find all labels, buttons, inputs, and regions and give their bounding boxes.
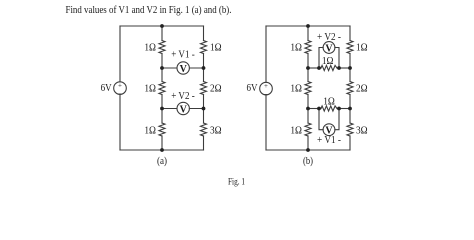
stub left voltmeter V2 (b) <box>319 48 323 69</box>
voltmeter V1 (a) <box>177 62 189 75</box>
wire top connector (b) with resistor <box>308 67 321 69</box>
resistor 1ohm (a) mid middle <box>159 82 165 95</box>
wire right branch segs (b) <box>349 26 351 41</box>
voltmeter V2 (b) <box>323 42 335 55</box>
resistor 2ohm (b) right middle <box>347 82 353 95</box>
wire left upper (b) <box>265 26 267 82</box>
resistor 1ohm (b) mid middle <box>305 82 311 95</box>
resistor 1ohm (b) horizontal bottom <box>321 106 337 111</box>
svg-text:(b): (b) <box>303 155 313 167</box>
resistor 1ohm (a) right top <box>201 41 207 54</box>
svg-text:+ V2 -: + V2 - <box>317 31 341 43</box>
svg-text:1Ω: 1Ω <box>210 41 222 53</box>
svg-text:+ V1 -: + V1 - <box>317 134 341 146</box>
svg-text:+ V2 -: + V2 - <box>171 90 195 102</box>
svg-text:−: − <box>118 90 122 98</box>
svg-text:+: + <box>118 82 122 90</box>
resistor 1ohm (a) mid bottom <box>159 123 165 136</box>
junction dots (a) <box>160 24 205 152</box>
stub right voltmeter V1 (b) <box>335 109 339 130</box>
svg-text:2Ω: 2Ω <box>356 82 368 94</box>
wire left lower (a) <box>119 94 121 150</box>
wire left lower (b) <box>265 95 267 150</box>
svg-text:1Ω: 1Ω <box>144 82 156 94</box>
voltmeter V2 (a) <box>177 102 189 115</box>
svg-text:3Ω: 3Ω <box>210 124 222 136</box>
resistor 1ohm (b) mid bottom <box>305 123 311 136</box>
wire V2 row (a) <box>162 108 204 110</box>
resistor 1ohm (b) horizontal top <box>321 65 337 70</box>
resistor 2ohm (a) right middle <box>201 82 207 95</box>
resistor 1ohm (a) mid top <box>159 41 165 54</box>
svg-text:V: V <box>325 43 333 54</box>
resistor 3ohm (b) right bottom <box>347 123 353 136</box>
wire top (b) <box>266 25 350 27</box>
voltmeter V1 (b) <box>323 124 335 137</box>
wire V1 row (a) <box>162 67 204 69</box>
svg-text:6V: 6V <box>247 82 258 94</box>
resistor 1ohm (b) right top <box>347 41 353 54</box>
svg-text:Fig. 1: Fig. 1 <box>228 178 245 188</box>
svg-text:2Ω: 2Ω <box>210 82 222 94</box>
voltage source 6V (a) <box>114 82 127 98</box>
svg-text:+ V1 -: + V1 - <box>171 49 195 61</box>
wire middle branch segs (b) <box>307 26 309 41</box>
resistor 1ohm (b) mid top <box>305 41 311 54</box>
wire bottom connector (b) with resistor <box>308 108 321 110</box>
svg-text:1Ω: 1Ω <box>290 41 302 53</box>
svg-text:3Ω: 3Ω <box>356 124 368 136</box>
svg-text:1Ω: 1Ω <box>144 124 156 136</box>
voltage source 6V (b) <box>260 82 273 98</box>
wire left upper (a) <box>119 26 121 82</box>
stub right voltmeter V2 (b) <box>335 48 339 69</box>
svg-text:1Ω: 1Ω <box>290 82 302 94</box>
svg-text:6V: 6V <box>101 82 112 94</box>
wire top (a) <box>120 25 204 27</box>
wire middle branch segs (a) <box>161 26 163 41</box>
svg-text:Find values of V1 and V2 in Fi: Find values of V1 and V2 in Fig. 1 (a) a… <box>66 4 232 16</box>
svg-text:1Ω: 1Ω <box>144 41 156 53</box>
svg-text:1Ω: 1Ω <box>322 55 334 67</box>
svg-text:1Ω: 1Ω <box>290 124 302 136</box>
svg-text:(a): (a) <box>157 155 167 167</box>
svg-text:+: + <box>264 82 268 90</box>
wire bottom (b) <box>266 149 350 151</box>
svg-text:−: − <box>264 90 268 98</box>
junction dots (b) <box>306 24 352 152</box>
stub left voltmeter V1 (b) <box>319 109 323 130</box>
svg-text:V: V <box>180 64 188 75</box>
svg-text:1Ω: 1Ω <box>356 41 368 53</box>
wire bottom (a) <box>120 149 204 151</box>
svg-text:1Ω: 1Ω <box>323 95 335 107</box>
resistor 3ohm (a) right bottom <box>201 123 207 136</box>
wire right branch segs (a) <box>203 26 205 41</box>
svg-text:V: V <box>180 104 188 115</box>
